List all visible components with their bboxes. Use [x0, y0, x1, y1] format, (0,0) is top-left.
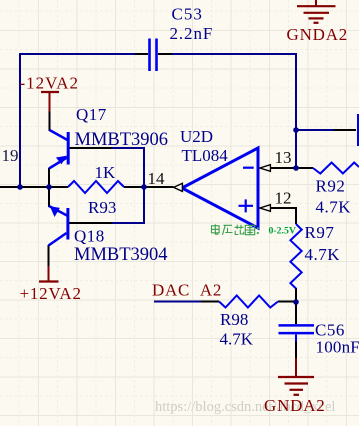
svg-text:4.7K: 4.7K	[220, 330, 254, 349]
svg-text:Q18: Q18	[74, 227, 105, 246]
svg-text:R97: R97	[305, 223, 335, 242]
svg-text:0-2.5V: 0-2.5V	[269, 226, 296, 237]
svg-text:+12VA2: +12VA2	[20, 284, 82, 303]
svg-text:2.2nF: 2.2nF	[170, 24, 214, 43]
svg-text:1K: 1K	[95, 163, 117, 182]
svg-text:19: 19	[2, 146, 19, 165]
svg-text:R93: R93	[88, 198, 116, 217]
svg-text:R92: R92	[316, 177, 346, 196]
svg-text:4.7K: 4.7K	[305, 245, 341, 264]
svg-text:U2D: U2D	[180, 127, 213, 146]
svg-text:-12VA2: -12VA2	[20, 74, 80, 93]
svg-text:TL084: TL084	[182, 146, 229, 165]
svg-text:14: 14	[148, 169, 166, 188]
svg-text:Q17: Q17	[76, 105, 107, 124]
svg-text:GNDA2: GNDA2	[264, 396, 326, 415]
svg-text:100nF: 100nF	[316, 338, 359, 357]
svg-text:12: 12	[275, 189, 292, 208]
svg-text:13: 13	[275, 148, 292, 167]
svg-text:MMBT3904: MMBT3904	[74, 245, 168, 265]
svg-text:R98: R98	[220, 310, 248, 329]
svg-text:4.7K: 4.7K	[316, 198, 352, 217]
svg-text:DAC A2: DAC A2	[152, 281, 222, 300]
svg-text:C53: C53	[172, 5, 203, 24]
svg-text:MMBT3906: MMBT3906	[75, 130, 169, 150]
svg-text:GNDA2: GNDA2	[287, 25, 349, 44]
